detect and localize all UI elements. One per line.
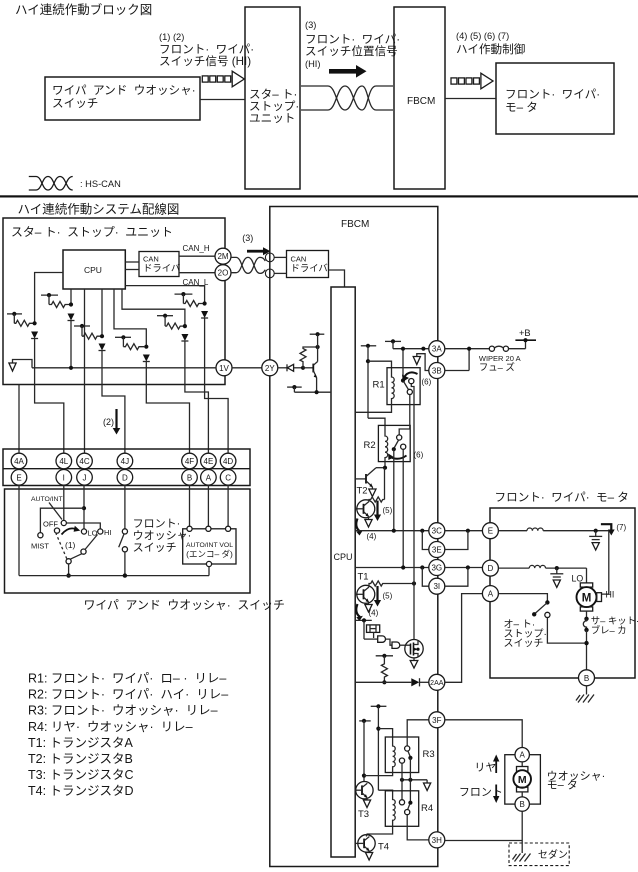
emitter rail to CPU bbox=[294, 390, 331, 394]
HS-CAN legend symbol bbox=[29, 177, 121, 191]
wire: FBCM to motor bbox=[445, 98, 496, 100]
svg-text:フロント· ワイパ·: フロント· ワイパ· bbox=[505, 88, 607, 101]
wiper arm lines bbox=[70, 535, 97, 560]
wire R3 lower to R4 top bbox=[401, 763, 403, 800]
svg-text:: HS-CAN: : HS-CAN bbox=[80, 179, 121, 189]
svg-text:(4): (4) bbox=[369, 609, 379, 618]
box: start stop unit bbox=[3, 218, 225, 385]
svg-text:CPU: CPU bbox=[84, 265, 102, 275]
svg-text:スイッチ: スイッチ bbox=[133, 541, 177, 554]
svg-text:ハイ作動制御: ハイ作動制御 bbox=[456, 42, 525, 56]
connector 1V bbox=[216, 360, 232, 376]
MOSFET U (circled) bbox=[405, 640, 423, 658]
svg-text:D: D bbox=[488, 564, 494, 573]
svg-text:B: B bbox=[584, 674, 589, 683]
svg-text:3I: 3I bbox=[433, 582, 440, 591]
(7) bold arrow bbox=[601, 523, 627, 536]
connector B bbox=[579, 670, 595, 686]
cell 1: resistor+diode on CPU line A bbox=[41, 289, 75, 370]
wire 4J drop with jog bbox=[102, 385, 125, 454]
pivot stem to rail bbox=[68, 564, 70, 576]
wire 2AA to A bbox=[445, 594, 482, 683]
svg-text:AUTO/INT VOL: AUTO/INT VOL bbox=[186, 542, 233, 549]
connector E bbox=[482, 523, 498, 539]
R4 lower contact bbox=[405, 810, 410, 815]
wire R2 common to 3C rail bbox=[393, 449, 395, 531]
connector 4E bbox=[201, 453, 217, 469]
wire R4 lower to 3H bbox=[407, 815, 429, 840]
svg-text:R3: R3 bbox=[423, 749, 435, 760]
svg-text:A: A bbox=[520, 751, 526, 760]
connector A bbox=[201, 470, 217, 486]
wire CPU column to 4C bbox=[84, 289, 86, 454]
wire 3E jog bbox=[422, 531, 429, 550]
svg-text:4D: 4D bbox=[223, 457, 233, 466]
wire to R1 coil bbox=[368, 361, 392, 374]
connector 2AA bbox=[429, 674, 445, 690]
wire 3C rail bbox=[355, 529, 429, 533]
wire 4E drop with jog bbox=[185, 385, 209, 454]
svg-text:スイッチ信号 (HI): スイッチ信号 (HI) bbox=[159, 55, 251, 68]
node dot pivot-rail bbox=[66, 573, 70, 577]
svg-text:3F: 3F bbox=[432, 716, 441, 725]
svg-text:C: C bbox=[225, 473, 231, 482]
connector 4C bbox=[77, 453, 93, 469]
relay feed stub bbox=[361, 344, 376, 419]
R2 coil bbox=[385, 433, 388, 462]
connector D bbox=[117, 470, 133, 486]
R1 fixed contact bbox=[409, 379, 414, 384]
wire R3 common down to R4 common bbox=[409, 758, 411, 803]
dashed line to OFF bbox=[56, 534, 67, 559]
connector 4J bbox=[117, 453, 133, 469]
label (3) front wiper switch position signal bbox=[305, 20, 407, 69]
ground (sedan) bbox=[513, 854, 531, 862]
node: FBCM pin circle CAN_H bbox=[265, 253, 274, 262]
svg-text:1V: 1V bbox=[219, 364, 229, 373]
R3 arm bbox=[408, 751, 410, 757]
svg-text:(7): (7) bbox=[616, 523, 626, 532]
wire to R2 coil bbox=[368, 418, 385, 433]
svg-text:2Y: 2Y bbox=[265, 364, 275, 373]
left stub with dot bbox=[287, 385, 302, 392]
svg-text:AUTO/INT: AUTO/INT bbox=[31, 496, 63, 503]
CPU U-left bbox=[63, 250, 125, 289]
svg-text:HI: HI bbox=[104, 528, 112, 537]
cell 3: resistor+diode bbox=[74, 289, 106, 385]
sedan dashed box bbox=[509, 843, 569, 866]
svg-text:OFF: OFF bbox=[43, 520, 58, 529]
circuit breaker bbox=[583, 617, 588, 633]
node: FBCM pin circle CAN_L bbox=[265, 269, 274, 278]
wire 2Y to diode bbox=[278, 367, 287, 369]
svg-text:+B: +B bbox=[519, 328, 531, 338]
relay R4 box bbox=[385, 791, 418, 827]
ground arrow (unit internal) bbox=[9, 360, 32, 372]
svg-text:3E: 3E bbox=[432, 546, 442, 555]
connector 4A bbox=[11, 453, 27, 469]
E line inductor bbox=[498, 528, 608, 533]
feed arrow symbol R4 bbox=[424, 780, 431, 791]
wire E down to rail bbox=[18, 485, 20, 575]
R4 common dot bbox=[408, 801, 412, 805]
contact LO bbox=[81, 529, 86, 534]
label (1)(2) front wiper switch signal bbox=[159, 32, 261, 68]
svg-text:LO: LO bbox=[572, 574, 584, 584]
E line ground bbox=[589, 531, 602, 550]
label front washer switch bbox=[133, 518, 198, 554]
diode to 2AA (right pointing) bbox=[411, 678, 429, 686]
contact OFF bbox=[54, 528, 59, 533]
R2 moving contact bbox=[397, 435, 402, 440]
R3 lower contact bbox=[399, 758, 404, 763]
(2) annotation arrow bbox=[103, 409, 120, 435]
svg-text:T3: T3 bbox=[358, 809, 369, 820]
R4 arm bbox=[408, 804, 410, 810]
connector 3I bbox=[429, 578, 445, 594]
fuse WIPER 20A bbox=[489, 346, 525, 351]
svg-text:フロント· ワイパ· モ– タ: フロント· ワイパ· モ– タ bbox=[495, 491, 629, 504]
connector D bbox=[482, 560, 498, 576]
logic gate 1 bbox=[364, 636, 386, 642]
washer switch lower contact bbox=[122, 547, 127, 552]
wire 3E outside jog bbox=[445, 531, 468, 550]
svg-text:T4: トランジスタD: T4: トランジスタD bbox=[28, 784, 134, 798]
svg-text:D: D bbox=[122, 473, 128, 482]
motor M (washer) bbox=[513, 762, 531, 797]
wire J down to LO contact bbox=[83, 485, 85, 529]
svg-text:T2: T2 bbox=[357, 486, 368, 497]
wire 2AA rail bbox=[355, 681, 411, 683]
R3 coil bottom to T3 bbox=[364, 772, 393, 776]
wire 3C to E bbox=[445, 529, 482, 533]
svg-text:B: B bbox=[187, 473, 192, 482]
wire washer B to 3H / ground bbox=[445, 811, 522, 853]
AUTO/INT VOL encoder box bbox=[183, 529, 236, 564]
wire 1V rail bbox=[32, 367, 216, 369]
connector 3H bbox=[429, 832, 445, 848]
svg-text:スイッチ: スイッチ bbox=[504, 638, 544, 650]
svg-text:4E: 4E bbox=[204, 457, 214, 466]
label AUTO/INT with leader bbox=[31, 496, 63, 520]
wire 4D drop with jog bbox=[205, 385, 229, 454]
transistor T2 driver (circled) bbox=[357, 500, 375, 518]
wire 4L drop with jog bbox=[35, 385, 64, 454]
node dot washer-rail bbox=[123, 573, 127, 577]
box: start stop unit bbox=[245, 7, 306, 189]
CAN driver (FBCM side) bbox=[287, 251, 329, 278]
svg-text:(1): (1) bbox=[65, 540, 76, 550]
R1 rotation arrow bbox=[402, 372, 418, 381]
svg-text:3B: 3B bbox=[432, 367, 442, 376]
D line inductor bbox=[498, 565, 586, 570]
svg-text:3A: 3A bbox=[432, 345, 442, 354]
connector 3G bbox=[429, 560, 445, 576]
connector 2Y bbox=[262, 360, 278, 376]
mid rail between R3/R4 bbox=[400, 778, 427, 782]
wire to R4 coil bbox=[378, 790, 392, 797]
auto stop switch bbox=[498, 594, 584, 644]
R1 contact arm bbox=[403, 381, 409, 391]
svg-text:CAN_H: CAN_H bbox=[183, 244, 210, 253]
wire 3G rail bbox=[355, 565, 429, 569]
svg-text:モ– タ: モ– タ bbox=[505, 101, 538, 114]
svg-text:ドライバ: ドライバ bbox=[143, 263, 180, 274]
crystal/filter block symbol bbox=[367, 625, 380, 638]
T3 feed stub bbox=[359, 719, 371, 782]
switch box frame bbox=[5, 489, 251, 593]
node dot T2 collector / R2 coil bbox=[376, 466, 387, 470]
wire to R3 coil bbox=[378, 729, 392, 744]
connector strip frame bbox=[3, 449, 250, 486]
T4 emitter ground arrow bbox=[366, 851, 373, 860]
svg-text:T1: T1 bbox=[358, 572, 369, 583]
svg-text:(3): (3) bbox=[305, 20, 316, 30]
svg-text:ブレ– カ: ブレ– カ bbox=[591, 625, 627, 636]
wire CPU to CAN driver (2) bbox=[125, 261, 139, 263]
bold arrow (5) T2 bbox=[374, 501, 393, 521]
T2 collector resistor to R2 node bbox=[369, 468, 385, 502]
svg-text:R4: R4 bbox=[421, 803, 433, 814]
R4 coil bottom to T4 bbox=[367, 826, 393, 834]
R1 contact common dot bbox=[401, 378, 405, 382]
resistor vertical to collector rail bbox=[300, 345, 320, 368]
relay feed stub R3/R4 bbox=[371, 704, 387, 790]
washer motor box bbox=[505, 755, 541, 804]
R4 moving contact bbox=[399, 800, 404, 805]
wire 3A/3B join to fuse bbox=[445, 347, 489, 371]
wire 3F to washer A bbox=[445, 720, 522, 748]
svg-text:(1) (2): (1) (2) bbox=[159, 32, 184, 42]
wire: switch to unit bbox=[200, 99, 245, 101]
svg-text:(6): (6) bbox=[414, 451, 424, 460]
R2 common dot bbox=[392, 447, 396, 451]
ground below B bbox=[576, 686, 594, 703]
wire I down to AUTO/INT contact bbox=[63, 485, 65, 520]
R1 coil bbox=[392, 374, 395, 404]
CPU box (FBCM) bbox=[331, 287, 355, 857]
VOL top contacts bbox=[187, 526, 231, 531]
svg-text:ワイパ アンド ウオッシャ· スイッチ: ワイパ アンド ウオッシャ· スイッチ bbox=[84, 598, 285, 612]
relay R1 box bbox=[387, 368, 420, 405]
rotary arrow arc bbox=[62, 528, 77, 534]
wire 4A drop bbox=[18, 385, 20, 454]
box: front wiper motor (block) bbox=[496, 63, 614, 134]
svg-text:E: E bbox=[488, 527, 493, 536]
label washer motor bbox=[547, 770, 612, 792]
+B terminal bbox=[515, 328, 536, 349]
box: FBCM (block) bbox=[394, 7, 445, 189]
svg-text:B: B bbox=[520, 800, 525, 809]
node dot on J wire bbox=[82, 506, 86, 510]
connector 2M bbox=[215, 248, 231, 264]
FBCM box bbox=[270, 207, 438, 867]
R4 coil bbox=[393, 798, 396, 827]
wire 3A feed bbox=[393, 347, 429, 351]
svg-text:(5): (5) bbox=[383, 506, 393, 515]
svg-text:(6): (6) bbox=[422, 378, 432, 387]
pivot contact bbox=[66, 559, 71, 564]
cell 6: resistor+diode right bbox=[125, 286, 208, 385]
connector 3B bbox=[429, 363, 445, 379]
connector C bbox=[220, 470, 236, 486]
wire AUTO/INT to HI riser bbox=[66, 523, 100, 529]
bottom rail bbox=[19, 575, 209, 577]
connector 2O bbox=[215, 265, 231, 281]
pull resistor stub bbox=[376, 654, 393, 685]
wire driver to 2M bbox=[179, 255, 215, 257]
transistor T1 driver (circled) bbox=[357, 585, 375, 603]
svg-text:E: E bbox=[16, 473, 21, 482]
washer switch upper contact bbox=[122, 529, 127, 534]
washer switch arm bbox=[119, 534, 124, 547]
wire D to LO brush bbox=[586, 568, 588, 583]
wiper arm contact bbox=[81, 549, 86, 554]
feed arrow symbol near 3B bbox=[413, 354, 429, 371]
cell 5: resistor+diode bbox=[122, 289, 188, 385]
gate feed wire from CPU bbox=[355, 618, 372, 639]
connector 3E bbox=[429, 542, 445, 558]
R1 coil bottom to CPU bbox=[355, 404, 391, 412]
transistor Q (2Y input) bbox=[303, 347, 318, 392]
connector E bbox=[11, 470, 27, 486]
wire 4F drop with jog bbox=[146, 385, 189, 454]
wire R2 fixed to 3G rail bbox=[402, 449, 404, 567]
wire: twisted pair unit to FBCM bbox=[301, 86, 393, 110]
T2 base from CPU bbox=[355, 508, 357, 510]
R3 common dot bbox=[408, 756, 412, 760]
svg-text:(3): (3) bbox=[242, 233, 253, 243]
connector 4D bbox=[220, 453, 236, 469]
svg-text:T4: T4 bbox=[378, 842, 389, 853]
svg-text:M: M bbox=[582, 592, 592, 604]
connector J bbox=[77, 470, 93, 486]
svg-text:T1: トランジスタA: T1: トランジスタA bbox=[28, 736, 134, 750]
connector 3A bbox=[429, 341, 445, 357]
wire 3G to D bbox=[445, 565, 482, 569]
logic gate 2 bbox=[386, 639, 406, 648]
bold curved arrow (4) T1 bbox=[356, 604, 378, 621]
svg-text:3H: 3H bbox=[432, 836, 442, 845]
MOSFET drain from R1 fixed contact (long vertical) bbox=[411, 384, 414, 640]
box: wiper and washer switch bbox=[45, 77, 202, 120]
R2 arm bbox=[394, 440, 398, 448]
label auto stop switch bbox=[504, 619, 553, 650]
svg-text:リヤ: リヤ bbox=[474, 762, 496, 774]
wire A down to VOL bbox=[207, 485, 209, 526]
svg-text:(4): (4) bbox=[367, 532, 377, 541]
svg-text:HI: HI bbox=[606, 590, 615, 600]
squares arrow 2 bbox=[451, 73, 493, 89]
svg-text:3G: 3G bbox=[431, 564, 442, 573]
R3 moving contact bbox=[405, 746, 410, 751]
R2 fixed contact bbox=[401, 444, 406, 449]
motor M (wiper) bbox=[577, 583, 602, 619]
T1 emitter ground arrow bbox=[365, 602, 372, 612]
svg-text:4A: 4A bbox=[14, 457, 24, 466]
bold curved arrow (4) T2 bbox=[356, 519, 376, 542]
separator line bbox=[0, 195, 638, 197]
svg-text:FBCM: FBCM bbox=[407, 96, 435, 107]
wire D down to washer switch bbox=[124, 485, 126, 529]
connector B bbox=[182, 470, 198, 486]
svg-text:フュ– ズ: フュ– ズ bbox=[479, 362, 515, 373]
wire pinL to driver bbox=[274, 272, 286, 274]
svg-text:ユニット: ユニット bbox=[249, 112, 295, 125]
relay R3 box bbox=[385, 737, 418, 773]
top rail stub bbox=[310, 332, 325, 347]
svg-text:フロント·: フロント· bbox=[133, 518, 187, 530]
cell 4: resistor+diode bbox=[114, 289, 150, 385]
svg-text:I: I bbox=[63, 473, 65, 482]
motor box frame bbox=[490, 508, 635, 678]
svg-text:ハイ連続作動システム配線図: ハイ連続作動システム配線図 bbox=[18, 202, 180, 217]
svg-text:(HI): (HI) bbox=[305, 59, 321, 69]
wire 1V to 2Y bbox=[232, 367, 262, 369]
VOL bottom contact bbox=[206, 561, 211, 566]
wire R1 lower contact down to R2 bbox=[399, 395, 410, 435]
D line ground bbox=[550, 568, 563, 587]
wire driver to CPU bbox=[329, 270, 345, 287]
svg-text:スイッチ: スイッチ bbox=[52, 97, 98, 110]
wire pinH to driver bbox=[274, 256, 286, 258]
connector A bbox=[482, 586, 498, 602]
T1 base from CPU bbox=[355, 593, 357, 595]
connector washer B bbox=[515, 797, 529, 811]
CAN driver (unit side) bbox=[139, 252, 180, 277]
connector 3C bbox=[429, 523, 445, 539]
svg-text:スイッチ位置信号: スイッチ位置信号 bbox=[305, 44, 398, 58]
cell 2: resistor+diode far left bbox=[7, 273, 63, 385]
svg-text:ワイパ アンド ウオッシャ·: ワイパ アンド ウオッシャ· bbox=[52, 84, 202, 97]
diode (left pointing, hollow) bbox=[287, 364, 303, 371]
squares arrow 1 bbox=[202, 71, 244, 87]
R2 rotation arrow bbox=[388, 454, 406, 461]
connector I bbox=[56, 470, 72, 486]
direction arrows rear/front bbox=[459, 755, 503, 804]
svg-text:(5): (5) bbox=[383, 592, 393, 601]
connector 4L bbox=[56, 453, 72, 469]
svg-text:CPU: CPU bbox=[333, 552, 352, 562]
connector 3F bbox=[429, 712, 445, 728]
wire driver to 2O bbox=[179, 272, 215, 274]
wire MIST jog bbox=[40, 508, 84, 532]
svg-text:R3: フロント· ウオッシャ· リレ–: R3: フロント· ウオッシャ· リレ– bbox=[28, 704, 221, 718]
wire 3I jog bbox=[422, 568, 429, 587]
washer switch stem bbox=[124, 552, 126, 576]
R3 coil bbox=[393, 744, 396, 772]
svg-text:4F: 4F bbox=[185, 457, 194, 466]
svg-text:4L: 4L bbox=[59, 457, 68, 466]
R1 lower contact bbox=[407, 389, 412, 394]
contact HI bbox=[98, 529, 103, 534]
R1 contact common feed from 3A bbox=[402, 349, 404, 381]
svg-text:R4: リヤ· ウオッシャ· リレ–: R4: リヤ· ウオッシャ· リレ– bbox=[28, 720, 196, 734]
contact AUTO/INT bbox=[61, 520, 66, 525]
label circuit breaker bbox=[591, 615, 638, 636]
svg-text:2O: 2O bbox=[218, 269, 229, 278]
wire: CAN twisted pair to FBCM bbox=[231, 257, 265, 273]
contact MIST bbox=[38, 533, 43, 538]
svg-text:モ– タ: モ– タ bbox=[547, 779, 578, 792]
svg-text:2AA: 2AA bbox=[430, 680, 444, 687]
T2 emitter ground arrow bbox=[365, 516, 372, 527]
stub above 3A wire bbox=[385, 339, 401, 348]
svg-text:(4) (5) (6) (7): (4) (5) (6) (7) bbox=[456, 31, 509, 41]
transistor T4 (circled) bbox=[355, 834, 375, 852]
wire E to HI brush bbox=[602, 531, 609, 594]
VOL bottom stem to rail bbox=[208, 567, 210, 576]
